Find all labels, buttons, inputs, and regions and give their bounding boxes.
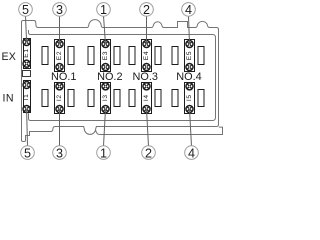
terminal E1 (EX row, far left) [23,38,30,68]
relay unit NO.4 flank slots [172,47,204,107]
svg-text:4: 4 [185,3,192,17]
svg-text:NO.2: NO.2 [97,71,122,83]
terminal I5 (IN row, NO.4) [185,83,195,114]
node pin 3 (bottom) [53,146,67,161]
svg-text:5: 5 [24,146,31,160]
wire from pin 3 (top) to terminal [59,16,61,44]
wire from terminal to pin 2 (bottom) [147,109,149,146]
svg-text:1: 1 [100,3,107,17]
node pin 2 (top) [140,3,154,18]
wire from terminal to pin 3 (bottom) [59,109,61,146]
svg-text:E1: E1 [23,48,30,57]
terminal I4 (IN row, NO.3) [142,83,152,114]
relay unit NO.3 flank slots [129,47,161,107]
svg-text:IN: IN [3,93,14,105]
node pin 3 (top) [53,3,67,18]
svg-text:I3: I3 [102,94,109,101]
svg-text:I2: I2 [56,94,63,101]
terminal I2 (IN row, NO.1) [55,83,65,114]
node pin 2 (bottom) [142,146,156,161]
relay unit NO.2 flank slots [88,47,120,107]
node pin 5 (bottom) [21,146,35,161]
svg-text:I4: I4 [143,94,150,101]
svg-text:4: 4 [188,146,195,160]
svg-text:NO.1: NO.1 [51,71,76,83]
svg-text:E4: E4 [143,51,150,60]
node pin 1 (top) [97,3,111,18]
socket case outer outline [22,20,219,142]
svg-text:1: 1 [100,146,107,160]
inner case line [29,30,216,121]
svg-text:E5: E5 [186,51,193,60]
svg-text:2: 2 [143,3,150,17]
node pin 4 (top) [182,3,196,18]
svg-text:2: 2 [145,146,152,160]
wire from pin 1 (top) to terminal [104,16,106,44]
svg-text:3: 3 [56,3,63,17]
svg-text:E3: E3 [102,51,109,60]
node pin 4 (bottom) [185,146,199,161]
clip recess between E1 and I1 [23,71,31,77]
terminal E2 (EX row, NO.1) [55,40,65,72]
terminal E4 (EX row, NO.3) [142,40,152,72]
svg-text:NO.4: NO.4 [176,71,201,83]
node pin 1 (bottom) [97,146,111,161]
terminal E3 (EX row, NO.2) [101,40,111,72]
terminal E5 (EX row, NO.4) [185,40,195,72]
wire from terminal to pin 5 (bottom) [26,109,29,146]
DIN-rail clip plate (bottom right) [96,127,223,134]
wire from pin 2 (top) to terminal [146,16,148,44]
relay unit NO.1 flank slots [42,47,74,107]
wire from pin 4 (top) to terminal [189,16,190,44]
svg-text:I5: I5 [186,94,193,101]
wire from pin 5 (top) to terminal [26,16,27,42]
node pin 5 (top) [19,3,33,18]
svg-text:E2: E2 [56,51,63,60]
svg-text:NO.3: NO.3 [132,71,157,83]
svg-text:EX: EX [2,51,17,63]
terminal I3 (IN row, NO.2) [101,83,111,114]
wire from terminal to pin 1 (bottom) [104,109,106,146]
wire from terminal to pin 4 (bottom) [190,109,192,146]
svg-text:I1: I1 [23,94,30,101]
svg-text:3: 3 [56,146,63,160]
svg-text:5: 5 [22,3,29,17]
terminal I1 (IN row, far left) [23,81,30,113]
